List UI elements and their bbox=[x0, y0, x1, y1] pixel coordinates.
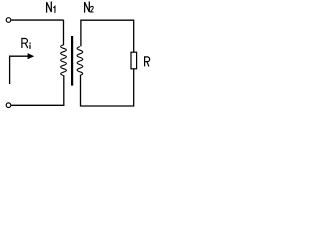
arrow Ri (input resistance looking in) bbox=[10, 56, 28, 84]
wire primary top lead bbox=[63, 20, 65, 45]
label Ri : letter R bbox=[22, 39, 28, 49]
label N1 : letter N bbox=[47, 2, 52, 12]
wire secondary top lead and top wire to resistor bbox=[81, 20, 134, 52]
wire primary bottom lead bbox=[63, 75, 65, 105]
background bbox=[0, 0, 153, 112]
transformer core bbox=[71, 36, 73, 86]
inductor N1 primary winding bbox=[61, 45, 67, 76]
label N2 : letter N bbox=[85, 2, 90, 12]
label N2 : subscript 2 bbox=[90, 6, 93, 12]
terminal bottom-left bbox=[6, 103, 11, 108]
inductor N2 secondary winding bbox=[77, 47, 83, 76]
label N1 : subscript 1 bbox=[53, 6, 55, 12]
terminal top-left bbox=[6, 18, 11, 23]
label R (load) bbox=[145, 57, 150, 67]
resistor R bbox=[131, 52, 137, 69]
wire bottom-left bbox=[11, 104, 64, 106]
wire secondary bottom lead and bottom wire to resistor bbox=[81, 69, 134, 106]
label Ri : subscript i bbox=[29, 45, 31, 49]
wire top-left to primary bbox=[11, 19, 63, 21]
